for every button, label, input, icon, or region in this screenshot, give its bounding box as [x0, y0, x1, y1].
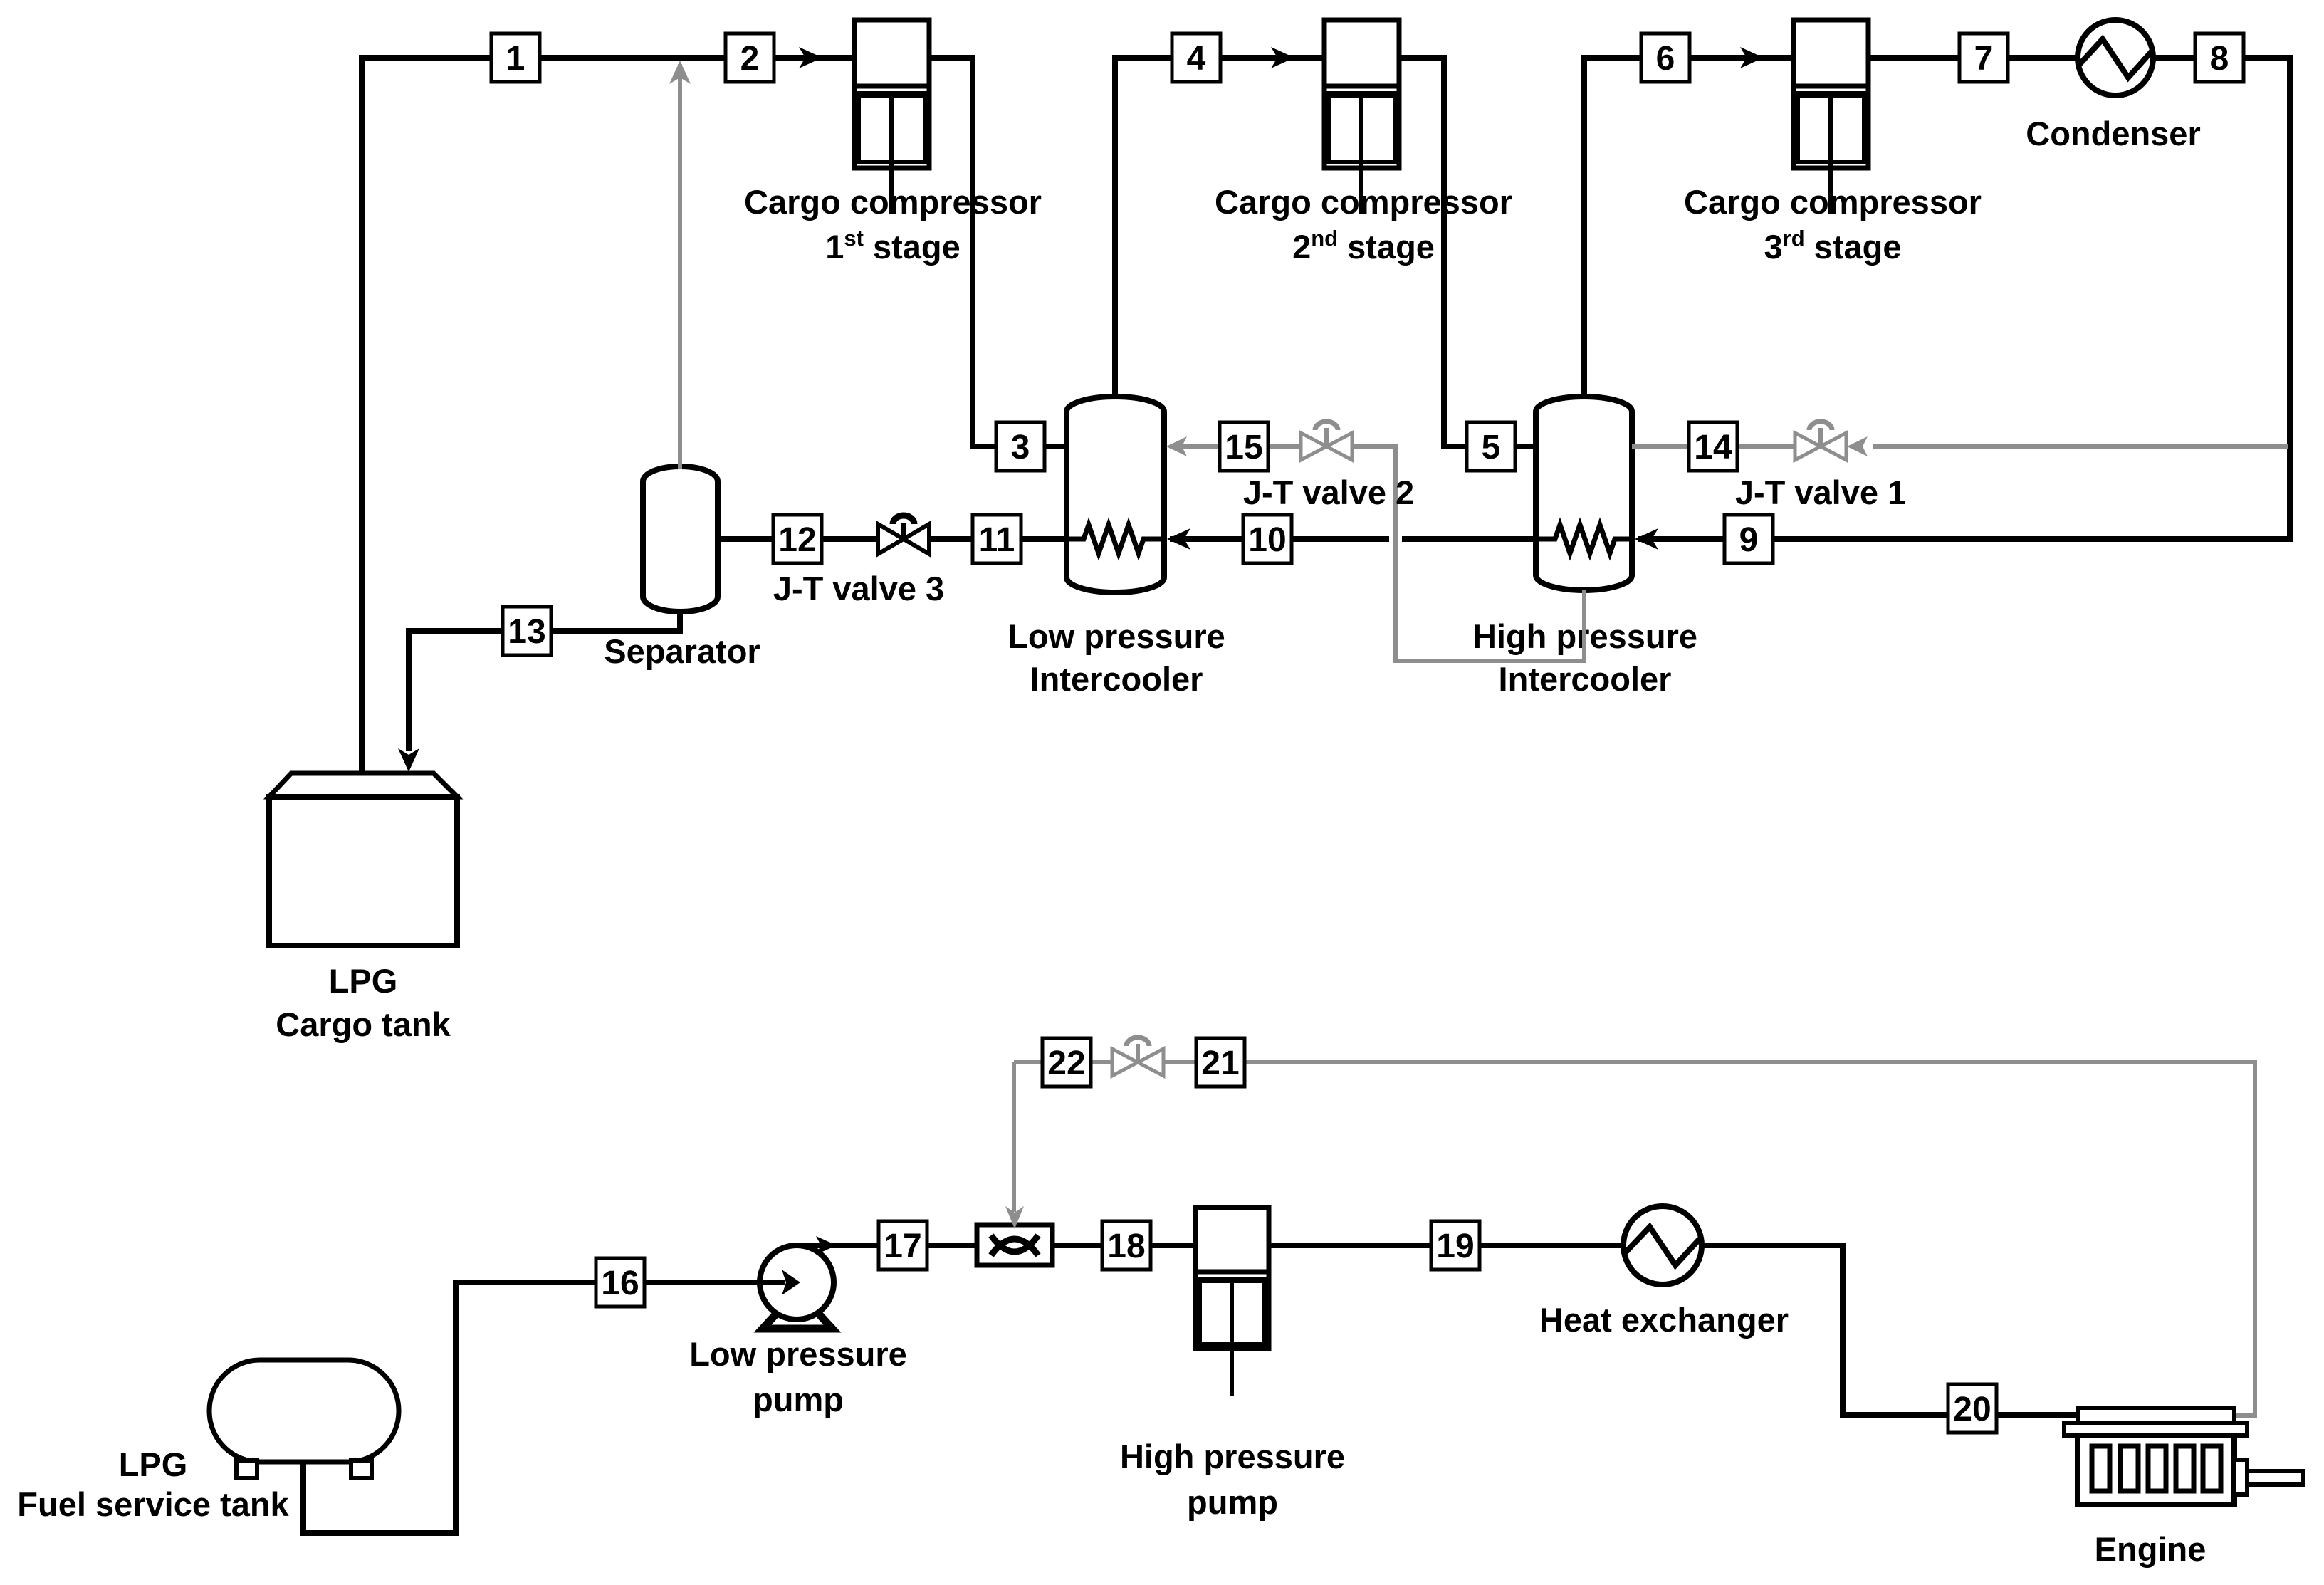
- svg-text:J-T valve 3: J-T valve 3: [773, 570, 944, 607]
- wire J-T valve 3 to box 12: [822, 536, 878, 542]
- svg-text:3: 3: [1011, 429, 1030, 466]
- svg-text:16: 16: [601, 1265, 639, 1302]
- stream box 19: [1431, 1221, 1480, 1270]
- svg-text:Engine: Engine: [2095, 1530, 2207, 1568]
- svg-text:Fuel service tank: Fuel service tank: [17, 1485, 289, 1523]
- compressor 2nd stage symbol: [1324, 20, 1399, 214]
- svg-text:11: 11: [979, 521, 1015, 559]
- static mixer symbol: [977, 1225, 1052, 1265]
- svg-text:LPG: LPG: [329, 962, 398, 1000]
- svg-text:6: 6: [1656, 40, 1675, 78]
- stream box 7: [1959, 33, 2008, 82]
- wire compressor 3 outlet to box 7: [1868, 55, 1959, 61]
- svg-text:22: 22: [1047, 1045, 1085, 1082]
- wire LP intercooler to box 11: [973, 536, 1067, 542]
- wire compressor 2 outlet to box 5: [1399, 58, 1467, 446]
- flow arrow after box 4: [1271, 47, 1294, 68]
- svg-text:20: 20: [1953, 1391, 1991, 1428]
- svg-text:7: 7: [1974, 40, 1994, 78]
- label HP pump: [1120, 1438, 1345, 1521]
- HP intercooler vessel: [1536, 397, 1632, 590]
- label compressor 2: [1215, 183, 1512, 266]
- flow arrow into LP intercooler: [1167, 528, 1190, 550]
- J-T valve 3: [878, 516, 929, 554]
- stream box 5: [1467, 422, 1515, 471]
- label LPG fuel service tank: [17, 1445, 289, 1523]
- svg-text:J-T valve 1: J-T valve 1: [1735, 474, 1906, 511]
- svg-text:10: 10: [1248, 521, 1286, 559]
- LPG fuel service tank: [209, 1360, 399, 1478]
- label LP intercooler: [1007, 617, 1225, 698]
- wire HP intercooler to box 10 (gap at gray crossing): [1402, 536, 1538, 542]
- LP intercooler coil: [1068, 525, 1162, 553]
- J-T valve 1: [1795, 422, 1846, 460]
- wire HP intercooler top to box 6 and compressor 3: [1584, 58, 1641, 399]
- svg-text:1: 1: [506, 40, 525, 78]
- svg-text:Separator: Separator: [604, 632, 760, 670]
- wire box 18 to HP pump: [1151, 1243, 1195, 1248]
- svg-text:J-T valve 2: J-T valve 2: [1243, 474, 1414, 511]
- svg-text:8: 8: [2210, 40, 2229, 78]
- stream box 6: [1641, 33, 1690, 82]
- svg-text:4: 4: [1187, 40, 1206, 78]
- svg-text:14: 14: [1694, 429, 1732, 466]
- stream box 10: [1243, 515, 1292, 563]
- label compressor 1: [744, 183, 1042, 266]
- LP pump symbol: [760, 1245, 834, 1329]
- flow arrow into HP intercooler: [1635, 528, 1658, 550]
- wire condenser to box 8: [2153, 55, 2195, 61]
- wire heat exchanger to box 20 to engine: [1700, 1245, 1948, 1415]
- gray wire HP intercooler bottom to J-T valve 2: [1352, 446, 1584, 661]
- wire box 7 to condenser: [2008, 55, 2078, 61]
- svg-text:5: 5: [1482, 429, 1501, 466]
- svg-text:13: 13: [508, 613, 545, 651]
- stream box 16: [596, 1258, 644, 1307]
- gray wire separator vapor to suction line: [669, 61, 691, 469]
- wire box 5 to HP intercooler: [1515, 444, 1538, 449]
- wire box 11 to J-T valve 3: [929, 536, 973, 542]
- label LP pump: [689, 1335, 907, 1418]
- svg-text:pump: pump: [1187, 1483, 1278, 1521]
- stream box 15: [1220, 422, 1268, 471]
- wire box 19 to heat exchanger: [1480, 1243, 1625, 1248]
- svg-text:LPG: LPG: [119, 1445, 188, 1483]
- svg-text:Cargo compressor: Cargo compressor: [1684, 183, 1982, 221]
- svg-text:pump: pump: [753, 1381, 844, 1418]
- wire box 10 into LP intercooler: [1170, 536, 1243, 542]
- LP intercooler vessel: [1067, 397, 1164, 592]
- wire box 3 to LP intercooler: [1045, 444, 1068, 449]
- engine symbol: [2064, 1408, 2303, 1505]
- svg-text:Heat exchanger: Heat exchanger: [1539, 1301, 1789, 1339]
- wire box 8 down right side to box 9: [1773, 58, 2290, 539]
- stream box 8: [2195, 33, 2244, 82]
- gray wire stream 21-22 engine return line: [1005, 1062, 2255, 1416]
- gray wire J-T valve 2 to box 15 to LP intercooler: [1166, 436, 1301, 456]
- wire tank riser to stream 1 and 2 (suction line): [362, 58, 854, 773]
- svg-text:Low pressure: Low pressure: [1007, 617, 1225, 655]
- label compressor 3: [1684, 183, 1982, 266]
- svg-text:Cargo compressor: Cargo compressor: [744, 183, 1042, 221]
- control valve on 21-22 line: [1112, 1037, 1163, 1076]
- flow arrow into cargo tank: [398, 748, 419, 772]
- svg-text:15: 15: [1225, 429, 1262, 466]
- svg-text:9: 9: [1739, 521, 1759, 559]
- flow arrow after box 6: [1740, 47, 1764, 68]
- svg-text:17: 17: [884, 1228, 921, 1265]
- wire LP pump outlet to box 17: [797, 1243, 879, 1248]
- wire separator bottom to box 13 to cargo tank: [552, 612, 680, 631]
- wire HP pump to box 19: [1269, 1243, 1431, 1248]
- LPG cargo tank: [269, 773, 457, 946]
- stream box 22: [1042, 1038, 1091, 1087]
- gray wire stream 14 J-T valve 1 line: [1632, 436, 2288, 456]
- wire mixer to box 18: [1052, 1243, 1102, 1248]
- stream box 17: [879, 1221, 927, 1270]
- svg-text:21: 21: [1201, 1045, 1239, 1082]
- compressor 3rd stage symbol: [1794, 20, 1868, 214]
- svg-text:2: 2: [740, 40, 760, 78]
- J-T valve 2: [1301, 422, 1352, 460]
- stream box 9: [1724, 515, 1773, 563]
- HP pump symbol: [1195, 1208, 1269, 1396]
- stream box 4: [1172, 33, 1220, 82]
- label HP intercooler: [1472, 617, 1697, 698]
- svg-text:Cargo tank: Cargo tank: [276, 1005, 451, 1043]
- label LPG cargo tank: [276, 962, 451, 1043]
- svg-text:12: 12: [778, 521, 816, 559]
- svg-text:Low pressure: Low pressure: [689, 1335, 907, 1373]
- stream box 21: [1196, 1038, 1245, 1087]
- wire compressor 1 outlet to box 3: [929, 58, 996, 446]
- HP intercooler coil: [1539, 525, 1631, 553]
- wire box 9 into HP intercooler: [1638, 536, 1724, 542]
- svg-text:19: 19: [1436, 1228, 1474, 1265]
- wire box 12 to separator: [718, 536, 773, 542]
- stream box 1: [491, 33, 540, 82]
- stream box 14: [1689, 422, 1737, 471]
- stream box 18: [1102, 1221, 1151, 1270]
- stream box 13: [503, 607, 551, 655]
- stream box 2: [726, 33, 774, 82]
- svg-text:High pressure: High pressure: [1120, 1438, 1345, 1475]
- flow arrow at LP pump outlet: [816, 1236, 837, 1255]
- svg-text:Condenser: Condenser: [2026, 115, 2201, 152]
- wire LP intercooler top to box 4 and compressor 2: [1115, 58, 1172, 399]
- wire box 17 to mixer: [927, 1243, 977, 1248]
- stream box 12: [773, 515, 822, 563]
- svg-text:Intercooler: Intercooler: [1499, 660, 1672, 698]
- flow arrow after box 2: [799, 47, 822, 68]
- compressor 1st stage symbol: [854, 20, 929, 214]
- svg-text:Intercooler: Intercooler: [1030, 660, 1203, 698]
- heat exchanger symbol: [1623, 1206, 1702, 1285]
- condenser symbol: [2078, 20, 2153, 95]
- stream box 20: [1948, 1384, 1996, 1433]
- svg-text:18: 18: [1107, 1228, 1145, 1265]
- stream box 11: [973, 515, 1021, 563]
- stream box 3: [996, 422, 1045, 471]
- wire fuel tank to box 16 to LP pump: [303, 1282, 596, 1533]
- svg-text:Cargo compressor: Cargo compressor: [1215, 183, 1512, 221]
- separator vessel: [643, 466, 718, 612]
